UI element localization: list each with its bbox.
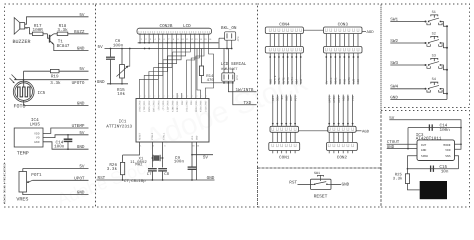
svg-text:Adobe Stock | #310118562: Adobe Stock | #310118562 [3, 163, 7, 204]
svg-text:S1: S1 [432, 10, 436, 15]
svg-text:AGD: AGD [357, 79, 360, 84]
svg-text:JP3: JP3 [236, 75, 239, 80]
svg-text:(RXD)PD0: (RXD)PD0 [139, 100, 142, 112]
svg-text:VRES: VRES [16, 197, 28, 203]
svg-text:UTEMP: UTEMP [72, 124, 85, 129]
svg-text:BKL_ON: BKL_ON [221, 26, 237, 31]
svg-text:INT1)PD3: INT1)PD3 [153, 100, 156, 112]
svg-text:C8: C8 [164, 172, 169, 177]
svg-text:VCC: VCC [191, 135, 194, 140]
svg-text:CTO: CTO [352, 96, 355, 101]
svg-text:SNS: SNS [347, 96, 350, 101]
svg-text:INT0: INT0 [348, 77, 351, 84]
svg-text:GND: GND [207, 176, 215, 181]
svg-text:GND: GND [77, 145, 85, 150]
svg-text:1W/INTB: 1W/INTB [235, 87, 253, 93]
svg-text:FOTO: FOTO [14, 104, 26, 110]
svg-text:GND: GND [196, 135, 199, 140]
svg-text:(ICP)PD6: (ICP)PD6 [167, 100, 170, 112]
svg-text:(SCK)PB7: (SCK)PB7 [204, 100, 207, 112]
svg-text:SCL: SCL [277, 96, 280, 101]
svg-text:BUZZER: BUZZER [13, 39, 31, 45]
svg-text:10n: 10n [441, 169, 449, 174]
svg-text:C7,C8=18p: C7,C8=18p [124, 179, 146, 184]
svg-text:3.3k: 3.3k [393, 177, 403, 182]
svg-text:UPOT: UPOT [338, 96, 341, 103]
svg-text:TXD: TXD [243, 101, 251, 106]
svg-text:5V: 5V [79, 67, 85, 72]
svg-text:3.3k: 3.3k [57, 27, 68, 33]
svg-text:LM35: LM35 [30, 123, 41, 128]
svg-text:5V: 5V [326, 80, 329, 84]
svg-text:470: 470 [207, 78, 215, 83]
svg-text:GND: GND [421, 149, 427, 152]
svg-text:XTAL1: XTAL1 [163, 132, 166, 140]
svg-text:UTEM: UTEM [333, 96, 336, 103]
svg-text:AIN0)PB0: AIN0)PB0 [171, 100, 174, 112]
svg-text:RST: RST [272, 96, 275, 101]
svg-text:(T1)PD5: (T1)PD5 [162, 100, 165, 111]
svg-text:INT0)PD2: INT0)PD2 [148, 100, 151, 112]
svg-text:R19: R19 [51, 74, 59, 79]
svg-text:100n: 100n [113, 43, 124, 48]
svg-text:CON3: CON3 [338, 22, 349, 27]
svg-text:CON2: CON2 [337, 156, 348, 161]
svg-text:AGD: AGD [367, 30, 375, 35]
svg-text:UFOTO: UFOTO [72, 81, 85, 86]
svg-text:VO: VO [36, 137, 40, 140]
svg-text:BUZ: BUZ [290, 96, 293, 101]
svg-text:(TXD)PD1: (TXD)PD1 [143, 100, 146, 112]
svg-text:S4: S4 [432, 77, 436, 82]
svg-text:AGD: AGD [342, 96, 345, 101]
svg-text:XTAL2: XTAL2 [151, 132, 154, 140]
svg-text:GND: GND [34, 141, 40, 144]
svg-text:OUT2: OUT2 [283, 77, 286, 84]
svg-text:RST: RST [289, 180, 297, 185]
svg-text:AIN1)PB1: AIN1)PB1 [176, 100, 179, 112]
svg-text:RESET: RESET [314, 193, 328, 199]
svg-text:SNSK: SNSK [421, 155, 428, 158]
svg-text:CON4: CON4 [279, 22, 290, 27]
svg-text:RXD: RXD [339, 79, 342, 84]
svg-text:BC847: BC847 [57, 44, 70, 49]
svg-text:SCL1: SCL1 [330, 77, 333, 84]
svg-text:3.3k: 3.3k [107, 166, 118, 172]
svg-text:POT1: POT1 [31, 173, 42, 178]
svg-text:100n: 100n [54, 145, 65, 150]
svg-text:(T0)PD4: (T0)PD4 [157, 100, 160, 111]
svg-text:MHz: MHz [135, 163, 143, 168]
svg-text:TEMP: TEMP [17, 150, 29, 156]
svg-text:5V: 5V [79, 165, 85, 170]
svg-text:1WB: 1WB [353, 79, 356, 84]
svg-text:UFOT: UFOT [328, 96, 331, 103]
svg-text:(OC1)PB3: (OC1)PB3 [186, 100, 189, 112]
svg-text:SHR: SHR [300, 79, 303, 84]
svg-text:5V: 5V [98, 45, 104, 50]
svg-text:PB4: PB4 [190, 100, 193, 105]
svg-text:LCD SERIAL: LCD SERIAL [221, 62, 247, 67]
svg-text:VDD: VDD [445, 149, 451, 152]
svg-text:5V: 5V [203, 156, 209, 161]
svg-text:ATTINY2313: ATTINY2313 [106, 124, 132, 129]
svg-text:OUT1: OUT1 [278, 77, 281, 84]
svg-text:GND: GND [77, 191, 85, 196]
svg-text:GND: GND [77, 47, 85, 52]
svg-text:VDD: VDD [34, 133, 40, 136]
svg-text:OUT: OUT [421, 144, 427, 147]
svg-text:GND: GND [285, 96, 288, 101]
svg-text:100R: 100R [33, 28, 44, 33]
svg-text:100n: 100n [174, 160, 185, 165]
svg-text:MOSI)PB5: MOSI)PB5 [195, 100, 198, 112]
svg-text:5V: 5V [281, 96, 284, 100]
svg-text:AGD: AGD [362, 130, 370, 135]
svg-text:GND: GND [387, 145, 395, 150]
svg-text:MISO)PB6: MISO)PB6 [200, 100, 203, 112]
svg-text:S2: S2 [432, 31, 436, 36]
svg-text:UPOT: UPOT [74, 176, 85, 181]
svg-text:RESET: RESET [139, 132, 142, 140]
svg-text:MODE: MODE [443, 144, 450, 147]
svg-text:GND: GND [342, 183, 350, 188]
svg-text:5V: 5V [79, 131, 85, 136]
svg-text:SDA1: SDA1 [335, 77, 338, 84]
svg-text:PB2: PB2 [181, 100, 184, 105]
svg-text:GND: GND [97, 80, 105, 85]
svg-text:GND: GND [77, 101, 85, 106]
svg-text:SNS: SNS [445, 155, 451, 158]
svg-text:BUZZ: BUZZ [74, 30, 85, 35]
svg-text:10k: 10k [117, 91, 125, 97]
svg-text:C7: C7 [147, 172, 152, 177]
svg-text:S3: S3 [432, 53, 436, 58]
svg-text:OUT.R: OUT.R [274, 75, 277, 84]
svg-text:5V: 5V [79, 13, 85, 18]
svg-text:CON1: CON1 [279, 156, 290, 161]
svg-text:3.3k: 3.3k [50, 80, 61, 86]
svg-text:100n: 100n [440, 128, 451, 133]
svg-text:JP4: JP4 [237, 36, 240, 41]
svg-text:OUT4: OUT4 [291, 77, 294, 84]
svg-text:POT: POT [294, 96, 297, 101]
svg-text:OUT3: OUT3 [287, 77, 290, 84]
svg-text:AT42QT1011: AT42QT1011 [416, 136, 442, 141]
svg-text:SDA: SDA [296, 79, 299, 84]
svg-text:IC5: IC5 [38, 91, 46, 96]
svg-text:TXD: TXD [344, 79, 347, 84]
svg-text:GND: GND [269, 79, 272, 84]
